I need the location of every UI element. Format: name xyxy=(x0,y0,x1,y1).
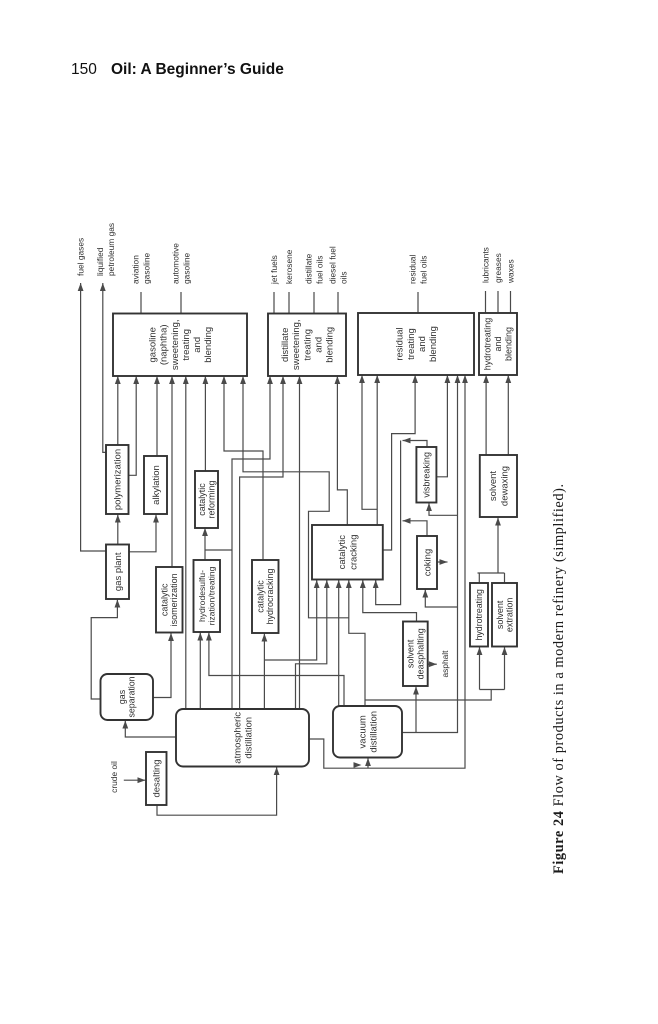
wire: fuel gases line (from gas plant) xyxy=(78,283,106,551)
svg-text:(naphtha): (naphtha) xyxy=(159,324,170,365)
svg-text:deasphalting: deasphalting xyxy=(415,628,425,679)
box: hydrodesulfurization treating xyxy=(194,560,221,632)
svg-text:sweetening,: sweetening, xyxy=(170,319,181,370)
wire: hydrodesulfurization branch to kerosene riser xyxy=(205,549,232,551)
svg-text:and: and xyxy=(192,337,203,353)
wire: cracking side to residual blending xyxy=(383,375,418,550)
wire: vacuum overhead branch to gasoline blending xyxy=(240,376,349,618)
box: catalytic reforming xyxy=(195,471,218,528)
label: crude oil xyxy=(109,761,119,793)
label: automotive gasoline xyxy=(171,243,192,284)
wire: liquified petroleum gas line (from polymerization) xyxy=(100,283,107,452)
wire: vacuum lube branch xyxy=(365,690,491,701)
svg-text:dewaxing: dewaxing xyxy=(499,466,510,506)
svg-text:isomerization: isomerization xyxy=(169,573,179,626)
wire: vacuum residuum line to residual blending xyxy=(402,375,460,733)
box: solvent deasphalting xyxy=(403,622,428,687)
svg-text:hydrotreating: hydrotreating xyxy=(474,589,484,640)
box: visbreaking xyxy=(416,447,436,503)
svg-text:fuel gases: fuel gases xyxy=(76,238,86,276)
svg-text:alkylation: alkylation xyxy=(151,465,162,505)
svg-text:waxes: waxes xyxy=(505,259,515,284)
svg-text:asphalt: asphalt xyxy=(440,650,450,678)
svg-text:cracking: cracking xyxy=(348,535,359,570)
wire: coking output merge xyxy=(403,518,428,536)
label: aviation gasoline xyxy=(131,252,152,284)
box: catalytic cracking xyxy=(312,525,383,580)
label: greases xyxy=(493,253,503,283)
label: residual fuel oils xyxy=(408,255,429,284)
svg-text:catalytic: catalytic xyxy=(197,483,207,516)
label: jet fuels xyxy=(269,255,279,285)
svg-text:and: and xyxy=(493,336,503,351)
box: residual treating and blending xyxy=(358,313,474,375)
wire: kerosene riser to distillate blending xyxy=(232,376,273,709)
svg-text:treating: treating xyxy=(302,329,313,361)
wire: cracking branch to residual blending xyxy=(359,375,377,509)
svg-text:coking: coking xyxy=(422,549,433,576)
svg-text:fuel oils: fuel oils xyxy=(314,256,324,284)
wire: isomerization to gasoline blending xyxy=(169,376,175,567)
label: fuel gases xyxy=(76,238,86,276)
box: hydrotreating xyxy=(470,583,488,647)
svg-text:Oil: A Beginner’s Guide: Oil: A Beginner’s Guide xyxy=(111,61,284,78)
wire: polymerization side to gasoline blending xyxy=(129,376,139,475)
box: gas separation xyxy=(101,674,154,720)
svg-text:treating: treating xyxy=(181,329,192,361)
page header xyxy=(71,61,284,78)
wire: vacuum gas oil to cat cracking 3 xyxy=(336,580,342,706)
box: alkylation xyxy=(144,456,167,514)
wire: atmospheric distillation to gasoline blending xyxy=(183,376,189,709)
wire: visbreaking output merge xyxy=(403,438,428,447)
svg-text:distillation: distillation xyxy=(368,711,379,753)
wire: lube feed to hydrotreating xyxy=(477,647,483,690)
box: catalytic hydrocracking xyxy=(252,560,279,633)
wire: polymerization to gasoline blending xyxy=(115,376,121,445)
wire: alkylation to gasoline blending xyxy=(154,376,160,456)
svg-text:fuel oils: fuel oils xyxy=(418,256,428,284)
svg-text:aviation: aviation xyxy=(131,255,141,284)
svg-text:hydrotreating: hydrotreating xyxy=(483,318,493,371)
svg-text:separation: separation xyxy=(127,676,137,717)
svg-text:extration: extration xyxy=(505,598,515,633)
svg-text:solvent: solvent xyxy=(495,600,505,629)
wire: reforming to gasoline blending xyxy=(203,376,209,471)
wire: cracking to residual blending xyxy=(374,375,380,525)
svg-text:catalytic: catalytic xyxy=(160,583,170,616)
label: asphalt xyxy=(440,650,450,678)
svg-text:catalytic: catalytic xyxy=(256,580,266,613)
wire: waxes line xyxy=(510,291,512,313)
box: solvent dewaxing xyxy=(480,455,517,517)
svg-text:solvent: solvent xyxy=(488,471,499,501)
wire: deasphalted oil to cat cracking 5 xyxy=(360,580,417,622)
box: vacuum distillation xyxy=(333,706,402,758)
svg-text:gasoline: gasoline xyxy=(148,327,159,362)
svg-text:treating: treating xyxy=(406,328,417,360)
wire: deasphalting feed branch xyxy=(413,687,419,733)
svg-text:residual: residual xyxy=(395,327,406,360)
wire: atm gas oil to hydrocracking xyxy=(262,634,268,710)
wire: hydrotreating to dewaxing bracket 1 xyxy=(478,573,480,583)
svg-text:atmospheric: atmospheric xyxy=(232,712,243,764)
wire: atm residuum to residual blending xyxy=(309,375,468,768)
wire: dewaxing bracket xyxy=(478,572,505,574)
svg-text:desalting: desalting xyxy=(152,759,163,797)
svg-text:150: 150 xyxy=(71,61,97,78)
svg-text:and: and xyxy=(313,337,324,353)
svg-text:blending: blending xyxy=(203,327,214,363)
wire: atm residuum arrow to vacuum distillation xyxy=(365,758,371,768)
wire: crude oil arrow to desalting xyxy=(124,777,146,783)
svg-text:sweetening,: sweetening, xyxy=(291,319,302,370)
wire: gas separation to gas plant xyxy=(91,600,120,700)
wire: visbreaking side to residual blending xyxy=(436,375,450,477)
wire: cracking to distillate blending xyxy=(335,376,348,525)
wire: residual fuel oils line xyxy=(417,292,419,313)
svg-text:solvent: solvent xyxy=(406,639,416,668)
wire: gas plant to alkylation xyxy=(128,515,159,552)
svg-text:blending: blending xyxy=(504,327,514,361)
wire: atm heavy gas oil to cat cracking 2 xyxy=(296,580,330,709)
svg-text:lubricants: lubricants xyxy=(480,247,490,283)
box: gasoline (naphtha) sweetening treating and blending xyxy=(113,314,247,377)
wire: diesel fuel oils line xyxy=(337,292,339,314)
box: coking xyxy=(417,536,437,589)
wire: gas plant to polymerization xyxy=(115,515,121,545)
wire: automotive gasoline line xyxy=(180,292,182,314)
box: distillate sweetening treating and blending xyxy=(268,314,346,377)
svg-text:gas plant: gas plant xyxy=(113,552,124,591)
svg-text:crude oil: crude oil xyxy=(109,761,119,793)
rotated refinery flow diagram xyxy=(76,223,568,874)
caption: Figure 24 xyxy=(551,483,567,874)
svg-text:blending: blending xyxy=(325,327,336,363)
svg-text:gas: gas xyxy=(117,689,127,704)
svg-text:rization/treating: rization/treating xyxy=(207,566,217,625)
svg-text:distillation: distillation xyxy=(243,717,254,759)
svg-text:diesel fuel: diesel fuel xyxy=(328,246,338,284)
box: atmospheric distillation xyxy=(176,709,309,767)
svg-text:liquified: liquified xyxy=(95,247,105,276)
wire: vacuum overhead to cat cracking 4 xyxy=(346,580,365,706)
box: desalting xyxy=(146,752,167,805)
wire: aviation gasoline line xyxy=(140,292,142,314)
wire: hydrodesulfurization to reforming xyxy=(202,528,208,560)
label: kerosene xyxy=(284,249,294,284)
wire: hydrocracking to gasoline blending xyxy=(221,376,263,560)
svg-text:oils: oils xyxy=(338,271,348,284)
wire: coke arrow xyxy=(437,559,448,565)
box: catalytic isomerization xyxy=(156,567,183,633)
svg-text:blending: blending xyxy=(428,326,439,362)
label: liquified petroleum gas xyxy=(95,223,116,276)
svg-text:residual: residual xyxy=(408,255,418,284)
svg-text:hydrodesulfu-: hydrodesulfu- xyxy=(197,570,207,622)
wire: distillate fuel oils line xyxy=(313,292,315,314)
svg-text:distillate: distillate xyxy=(280,328,291,362)
svg-text:kerosene: kerosene xyxy=(284,249,294,284)
svg-text:distillate: distillate xyxy=(304,253,314,284)
svg-text:catalytic: catalytic xyxy=(337,535,348,570)
label: diesel fuel oils xyxy=(328,246,349,284)
wire: atm to gas separation xyxy=(122,721,176,738)
svg-text:polymerization: polymerization xyxy=(113,449,124,510)
label: waxes xyxy=(505,259,515,284)
wire: jet fuels line xyxy=(273,292,275,314)
wire: lube bracket xyxy=(480,689,505,691)
svg-text:vacuum: vacuum xyxy=(357,715,368,748)
svg-text:jet fuels: jet fuels xyxy=(269,255,279,285)
svg-text:and: and xyxy=(417,336,428,352)
wire: thermal recycle to cat cracking 6 xyxy=(373,441,401,605)
wire: gas separation to isomerization xyxy=(153,633,174,698)
svg-text:greases: greases xyxy=(493,253,503,283)
wire: dewaxing to hydrotreating blending 2 xyxy=(505,375,511,455)
svg-text:hydrocracking: hydrocracking xyxy=(265,568,275,624)
wire: branch to cat cracking 1 xyxy=(264,580,319,660)
svg-text:gasoline: gasoline xyxy=(141,252,151,284)
wire: desalting to atmospheric distillation xyxy=(157,767,280,815)
label: distillate fuel oils xyxy=(304,253,325,284)
svg-text:gasoline: gasoline xyxy=(181,252,191,284)
arrow: atm residuum flow marker xyxy=(354,762,362,768)
wire: atm gas oil to distillate blending xyxy=(297,376,303,709)
svg-text:visbreaking: visbreaking xyxy=(422,452,432,498)
wire: greases line xyxy=(497,291,499,313)
box: gas plant xyxy=(106,545,129,600)
svg-text:petroleum gas: petroleum gas xyxy=(106,223,116,276)
wire: coking feed branch xyxy=(422,590,457,608)
label: lubricants xyxy=(480,247,490,283)
wire: kerosene line xyxy=(288,292,290,314)
box: solvent extration xyxy=(492,583,517,647)
wire: extration to dewaxing bracket 2 xyxy=(504,573,506,583)
box: polymerization xyxy=(106,445,129,514)
box: hydrotreating and blending xyxy=(479,313,517,375)
wire: vacuum overhead to hydrodesulfurization xyxy=(206,633,344,707)
wire: atm naphtha to hydrodesulfurization xyxy=(197,633,203,710)
wire: dewaxing to hydrotreating blending 1 xyxy=(483,375,489,455)
wire: asphalt arrow xyxy=(428,661,437,667)
svg-text:Figure 24 Flow of products in: Figure 24 Flow of products in a modern r… xyxy=(551,483,567,874)
wire: atm distillate to distillate blending xyxy=(240,376,286,709)
wire: lube feed to solvent extration xyxy=(502,647,508,690)
wire: visbreaking feed branch xyxy=(426,503,457,515)
svg-text:reforming: reforming xyxy=(206,480,216,518)
svg-text:automotive: automotive xyxy=(171,243,181,284)
wire: lubricants line xyxy=(485,291,487,313)
wire: bracket to solvent dewaxing xyxy=(495,518,501,574)
